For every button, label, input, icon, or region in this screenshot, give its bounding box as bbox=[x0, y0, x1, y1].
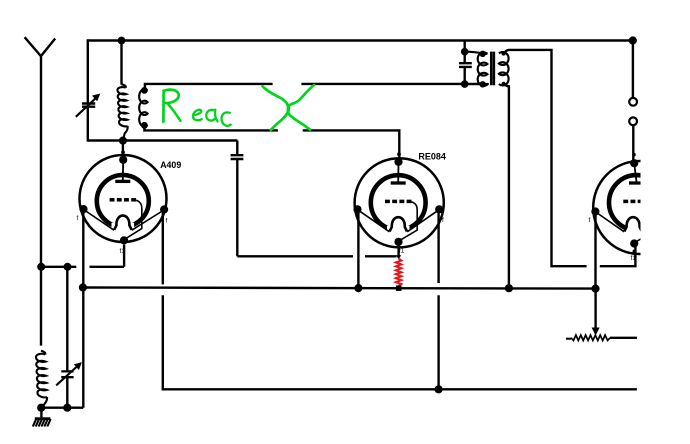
wire: antenna node to V1 grid bbox=[41, 245, 124, 267]
wire: tank bottom bbox=[88, 139, 238, 141]
svg-text:f: f bbox=[442, 217, 444, 224]
wire: V2 left filament bbox=[357, 213, 359, 289]
annotation: green X bbox=[263, 86, 311, 130]
wire: L2 to V1 plate cap bbox=[122, 141, 124, 158]
transformer T1 primary bbox=[465, 52, 483, 54]
wire: T1 secondary top to V3 grid bbox=[504, 50, 636, 266]
variable capacitor C2 bbox=[64, 263, 72, 271]
node: antenna junction bbox=[37, 263, 45, 271]
wire: V1 right filament rail bbox=[163, 213, 637, 389]
antenna bbox=[25, 37, 56, 345]
transformer T1 secondary bbox=[499, 52, 509, 85]
ground bbox=[40, 408, 42, 419]
wire: C3 to V2 grid (hop over V2 left fil) bbox=[237, 255, 396, 257]
variable capacitor C1 bbox=[87, 39, 89, 141]
reaction coil L3 bbox=[141, 87, 148, 94]
coil L2 (tank) bbox=[118, 37, 126, 45]
antenna coil L1 bbox=[41, 351, 45, 355]
tube V3 (clipped) bbox=[593, 161, 686, 254]
svg-text:A409: A409 bbox=[160, 160, 181, 170]
wire: top HT bus bbox=[87, 39, 633, 41]
transformer T1 core bbox=[491, 52, 494, 86]
wire: V2 right filament bbox=[437, 213, 439, 389]
wire: reac top bbox=[145, 84, 483, 90]
wire: ground rail bbox=[41, 407, 83, 409]
wire: reac bottom bbox=[144, 125, 399, 159]
capacitor C3 (grid) bbox=[236, 141, 238, 257]
tube V1 A409 bbox=[80, 155, 167, 242]
rheostat R2 bbox=[566, 338, 571, 340]
svg-text:f: f bbox=[77, 215, 79, 222]
switch S1 bbox=[629, 98, 637, 106]
resistor R1 grid leak (red) bbox=[397, 246, 399, 258]
wire: main bus bbox=[83, 288, 596, 289]
wire: V1 left filament bbox=[82, 212, 84, 408]
svg-text:f1: f1 bbox=[399, 248, 405, 255]
wire: bus corner to switch bbox=[629, 36, 637, 44]
capacitor C4 bbox=[464, 41, 466, 85]
svg-text:RE084: RE084 bbox=[418, 152, 446, 162]
wire: T1 secondary bottom to bus bbox=[504, 84, 509, 288]
svg-text:f1: f1 bbox=[120, 248, 126, 255]
svg-text:f: f bbox=[166, 218, 168, 225]
wire: V3 left filament bbox=[594, 215, 596, 329]
svg-text:f: f bbox=[589, 217, 591, 224]
wire: switch to V3 cap bbox=[632, 125, 634, 160]
annotation: green Reac bbox=[163, 90, 230, 126]
tube V2 RE084 bbox=[355, 158, 444, 247]
